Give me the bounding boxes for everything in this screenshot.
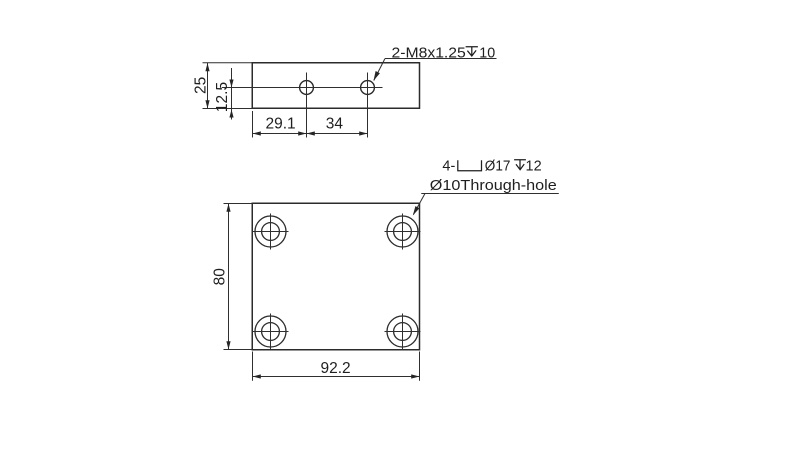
- dimension 34 text: [326, 116, 344, 133]
- svg-text:12.5: 12.5: [214, 82, 231, 112]
- tapped hole T1 vertical centerline: [306, 73, 308, 138]
- dimension 80 extension lines: [224, 204, 253, 350]
- label underline (through-hole): [421, 193, 559, 195]
- svg-text:29.1: 29.1: [266, 116, 296, 133]
- dimension 25 text: [192, 77, 209, 94]
- svg-text:Ø10Through-hole: Ø10Through-hole: [430, 177, 557, 194]
- hole centerline horizontal (top view): [222, 87, 383, 89]
- bottom view plate outline: [252, 203, 419, 350]
- dimension 25 line with arrows: [205, 63, 209, 109]
- dimension 29.1 text: [266, 116, 296, 133]
- svg-text:92.2: 92.2: [321, 360, 351, 377]
- leader line to tapped hole T2: [374, 59, 386, 81]
- counterbore hole C2 crosshair: [385, 214, 421, 250]
- counterbore symbol: [458, 160, 482, 171]
- depth symbol (cbore label): [514, 160, 526, 170]
- dimension 25 extension lines: [203, 63, 253, 109]
- counterbore hole C4 (bottom-right): [387, 316, 418, 347]
- dimension 92.2 line with arrows: [253, 374, 420, 378]
- tapped hole T2 circle (top view): [361, 81, 375, 95]
- counterbore hole C4 crosshair: [385, 314, 421, 350]
- label 2-M8x1.25 depth 10 text: [392, 44, 496, 61]
- counterbore hole C2 (top-right): [387, 216, 418, 247]
- tapped hole T1 circle (top view): [300, 81, 314, 95]
- dimension 29.1 / 34 extension line left: [252, 111, 254, 138]
- dimension 34 arrows: [307, 131, 368, 135]
- dimension 29.1 arrows: [253, 131, 307, 135]
- counterbore hole C3 crosshair: [253, 314, 289, 350]
- dimension 29.1 / 34 dimension line: [253, 133, 368, 135]
- label 4-cbore dia17 depth 12 text: [442, 159, 541, 175]
- counterbore hole C3 (bottom-left): [255, 316, 286, 347]
- svg-text:Ø17: Ø17: [485, 159, 511, 175]
- counterbore hole C1 (top-left): [255, 216, 286, 247]
- depth symbol (M8 label): [466, 47, 478, 56]
- dimension 12.5 text: [214, 82, 231, 112]
- top view plate outline: [252, 63, 419, 109]
- dimension 80 line with arrows: [226, 204, 230, 350]
- counterbore hole C1 crosshair: [253, 214, 289, 250]
- dimension 12.5 line with outside arrows: [229, 68, 233, 120]
- dimension 80 text: [212, 268, 229, 286]
- label underline (M8): [385, 58, 497, 60]
- svg-text:12: 12: [526, 159, 542, 175]
- svg-text:34: 34: [326, 116, 344, 133]
- dimension 92.2 extension lines: [253, 352, 420, 381]
- tapped hole T2 vertical centerline: [367, 73, 369, 138]
- label dia10 through-hole text: [430, 177, 557, 194]
- leader line to counterbore hole C2: [413, 194, 425, 216]
- dimension 92.2 text: [321, 360, 351, 377]
- svg-text:4-: 4-: [442, 159, 455, 175]
- svg-text:80: 80: [212, 268, 229, 286]
- svg-text:25: 25: [192, 77, 209, 94]
